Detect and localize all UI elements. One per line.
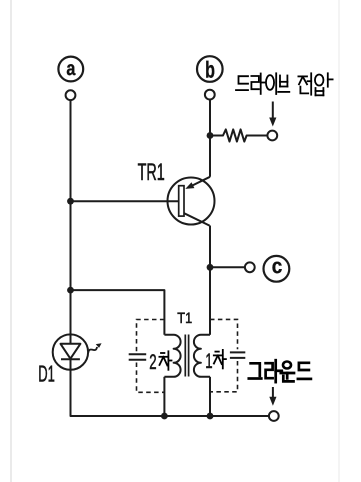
svg-text:T1: T1 (177, 310, 192, 327)
svg-text:b: b (205, 57, 215, 83)
svg-text:1: 1 (205, 350, 212, 373)
svg-text:D1: D1 (38, 360, 55, 386)
svg-text:c: c (272, 255, 283, 278)
svg-text:2: 2 (149, 351, 156, 374)
svg-text:a: a (66, 58, 76, 80)
svg-text:TR1: TR1 (138, 159, 165, 186)
